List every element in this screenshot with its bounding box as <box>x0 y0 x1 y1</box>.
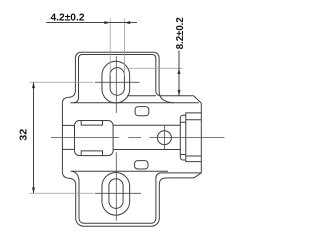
extension line 4.2 left <box>109 19 111 77</box>
slot lower-right <box>135 161 148 169</box>
dimension line 32 <box>33 82 35 193</box>
top oval outer <box>102 61 130 103</box>
plate right edge <box>200 103 202 173</box>
top oval crosshair horizontal <box>95 81 140 83</box>
bottom oval crosshair vertical <box>115 152 117 221</box>
dimension line 8.2 <box>178 51 180 96</box>
top-right chamfer <box>194 96 202 103</box>
extension line 32 bottom <box>30 192 94 194</box>
extension line 8.2 top <box>126 67 183 69</box>
extension line 32 top <box>30 81 94 83</box>
bottom tab inner outline <box>72 171 161 223</box>
right clip spring <box>180 115 186 160</box>
cam circle <box>157 131 171 145</box>
wing left edge <box>61 103 63 171</box>
wing top edge <box>70 102 199 104</box>
top mounting tab outer outline <box>62 52 174 103</box>
boss bottom notch <box>81 151 102 156</box>
bottom oval outer <box>102 173 130 216</box>
clip spring connectors <box>180 122 186 154</box>
bottom oval inner <box>109 179 123 209</box>
right band lines <box>113 125 180 149</box>
dimension line 4.2 <box>46 22 137 24</box>
svg-text:4.2±0.2: 4.2±0.2 <box>51 12 85 23</box>
boss top notch <box>81 121 102 126</box>
cam circle crosshair vertical <box>163 126 165 150</box>
slot upper-right <box>135 107 149 116</box>
top oval crosshair vertical <box>115 56 117 113</box>
wing bottom edge <box>71 170 168 172</box>
bottom tab outer outline <box>62 172 194 227</box>
bottom-right chamfer <box>194 173 201 178</box>
raised platform top edge <box>127 95 193 97</box>
raised platform bottom edge <box>161 172 201 174</box>
bottom oval crosshair horizontal <box>95 192 141 194</box>
svg-text:8.2±0.2: 8.2±0.2 <box>175 17 186 49</box>
top oval inner <box>110 68 124 96</box>
horizontal centerline <box>51 137 225 139</box>
right clip main block <box>186 113 202 162</box>
left band lines <box>62 125 74 149</box>
svg-text:32: 32 <box>18 128 29 140</box>
clip block cap lines <box>186 120 202 156</box>
top mounting tab inner outline <box>74 55 161 103</box>
central boss <box>75 121 114 156</box>
extension line 4.2 right <box>123 19 125 77</box>
